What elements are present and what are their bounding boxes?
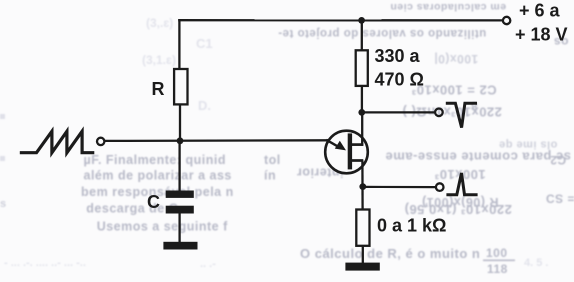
svg-text:ín: ín [264, 169, 276, 183]
wire: node C down to Q1 base B2 [361, 112, 363, 145]
svg-text:O cálculo de R, é o muito n: O cálculo de R, é o muito n [300, 246, 480, 261]
wire: node C to output 1 terminal [362, 111, 435, 113]
svg-text:tol: tol [264, 153, 281, 167]
svg-text:4. 5 .: 4. 5 . [524, 257, 548, 269]
resistor R [174, 69, 187, 104]
output 1 terminal [435, 109, 443, 117]
svg-text:R: R [152, 79, 165, 99]
Q1 base bar [348, 133, 352, 169]
wire: emitter rail from input terminal to Q1 [105, 139, 330, 142]
node B (R / C / emitter junction) [177, 137, 184, 144]
svg-text:C2: C2 [550, 153, 566, 167]
wire: Q1 base B1 down to node D [361, 161, 364, 209]
svg-text:100: 100 [486, 246, 508, 260]
wire: resistor R3 to ground [362, 247, 364, 264]
svg-text:470 Ω: 470 Ω [375, 69, 424, 89]
svg-text:além de polarizar a ass: além de polarizar a ass [84, 169, 232, 183]
wire: node B down to capacitor C [178, 141, 180, 191]
wire: resistor R2 to node C [361, 87, 363, 113]
positive spike waveform symbol [446, 173, 477, 195]
negative sawtooth spike waveform symbol [446, 103, 477, 127]
Q1 emitter lead with arrow [326, 140, 341, 149]
node C (B2 / output 1 junction) [358, 109, 365, 116]
svg-text:C2 = 100x10³: C2 = 100x10³ [411, 83, 496, 98]
svg-text:+ 6 a: + 6 a [519, 1, 561, 21]
wire: top rail from R branch to +V terminal [178, 19, 502, 21]
svg-text:(3,1.ɛ): (3,1.ɛ) [142, 53, 176, 67]
sawtooth input waveform symbol [20, 131, 95, 152]
svg-text:- ... .-. .... ..- ... -..: - ... .-. .... ..- ... -.. [4, 257, 86, 269]
svg-text:C: C [147, 192, 160, 212]
wire: node D to output 2 terminal [363, 186, 436, 188]
svg-text:100x(0|: 100x(0| [434, 52, 478, 66]
Q1 base B1 stub [352, 159, 364, 162]
capacitor C top plate [166, 191, 194, 198]
svg-text:.. .-: .. .- [200, 258, 216, 270]
capacitor C bottom plate [166, 206, 194, 214]
node D (B1 / output 2 junction) [359, 183, 366, 190]
svg-text:µF. Finalmente: quinid: µF. Finalmente: quinid [84, 153, 227, 167]
+V supply terminal [503, 17, 510, 24]
svg-text:D.: D. [198, 98, 211, 113]
svg-text:+ 18 V: + 18 V [515, 25, 568, 45]
wire: node A down to resistor R2 [361, 19, 363, 49]
svg-text:330 a: 330 a [375, 46, 421, 66]
output 2 terminal [436, 183, 444, 191]
svg-text:utilizando os valores do proje: utilizando os valores do projeto te- [278, 27, 486, 39]
svg-text:118: 118 [487, 262, 508, 276]
ground (below R3) [345, 263, 379, 271]
svg-text:se para comente ensse-ame: se para comente ensse-ame [385, 150, 571, 165]
resistor R3 (0 a 1 k) [356, 210, 369, 246]
ground (below C) [163, 242, 197, 250]
input terminal [97, 138, 104, 145]
svg-text:s: s [0, 198, 7, 210]
svg-text:(3,.ɛ): (3,.ɛ) [146, 16, 173, 30]
svg-text:0 a 1 kΩ: 0 a 1 kΩ [377, 216, 446, 236]
wire: capacitor C to ground [178, 213, 180, 243]
svg-text:= SƆ: = SƆ [545, 192, 574, 206]
svg-text:Usemos a seguinte f: Usemos a seguinte f [97, 220, 228, 234]
wire: resistor R to node B [179, 105, 181, 142]
resistor R2 (330 a 470 ohm) [356, 50, 368, 86]
node A (top rail / R2 junction) [358, 17, 365, 24]
Q1 base B2 stub [352, 143, 364, 146]
svg-text:C1: C1 [196, 36, 213, 51]
svg-text:em calculadoras cien: em calculadoras cien [390, 1, 506, 13]
transistor Q1 (unijunction) body circle [325, 131, 368, 174]
wire: vertical drop from top rail to resistor R [178, 19, 180, 68]
svg-text:ols ime qe: ols ime qe [499, 139, 558, 151]
